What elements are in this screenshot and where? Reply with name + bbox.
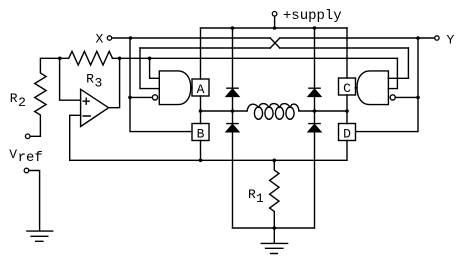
svg-text:V: V <box>9 147 17 162</box>
svg-text:Y: Y <box>447 33 455 48</box>
svg-text:+supply: +supply <box>283 8 342 24</box>
svg-text:1: 1 <box>256 191 264 206</box>
svg-text:A: A <box>197 82 205 97</box>
svg-text:X: X <box>96 32 104 47</box>
svg-text:R: R <box>248 187 256 202</box>
svg-text:B: B <box>197 126 205 141</box>
svg-text:2: 2 <box>18 95 26 110</box>
svg-text:R: R <box>86 72 94 87</box>
svg-text:C: C <box>343 81 351 96</box>
svg-text:ref: ref <box>18 150 43 166</box>
svg-text:D: D <box>343 126 351 141</box>
svg-text:R: R <box>10 91 18 106</box>
svg-text:3: 3 <box>95 75 103 90</box>
